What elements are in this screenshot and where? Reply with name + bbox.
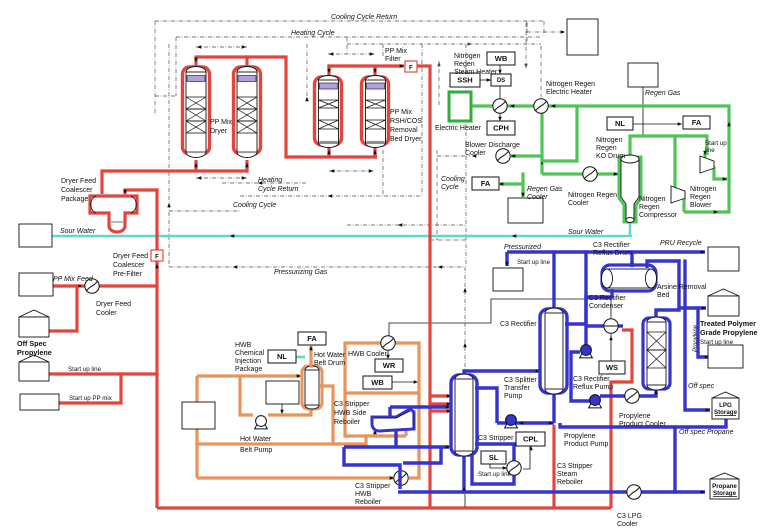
box HWB chemical injection (266, 381, 299, 404)
dashed vertical right x437 (436, 150, 438, 240)
orange drum outlet right (320, 386, 333, 444)
dashed span dryer1 bottoms (196, 177, 247, 179)
tag NL (607, 117, 633, 130)
orange drum to FA stub (309, 346, 312, 366)
dashed vertical x176 (175, 37, 177, 96)
blue kettle bottom stub (394, 431, 397, 447)
dashed inner header 1 (347, 43, 541, 45)
box regen gas cooler (508, 198, 543, 223)
svg-text:PP Mix: PP Mix (385, 48, 408, 55)
svg-text:Pump: Pump (504, 393, 522, 400)
svg-text:Pressurizing Gas: Pressurizing Gas (274, 269, 328, 276)
blue treated propylene line (679, 306, 706, 309)
tag NL2 (268, 350, 296, 363)
red pipe off spec propylene (48, 286, 77, 331)
svg-text:Storage: Storage (714, 409, 738, 416)
thin drain stripper bottoms to red header (464, 494, 466, 507)
svg-text:SSH: SSH (457, 76, 472, 85)
thin line SL to startup valve (490, 463, 505, 468)
blue offspec to cooler drop (673, 427, 676, 492)
orange reboiler to riser (345, 343, 419, 478)
junction dots orange (238, 374, 241, 377)
svg-text:Propylene: Propylene (693, 324, 699, 352)
electric heater green box (449, 92, 471, 121)
thin line DS to steam heater exchanger (499, 86, 501, 99)
svg-text:FA: FA (307, 334, 317, 343)
red pipe start up PP mix (59, 374, 121, 403)
dashed heating cycle return line (222, 182, 307, 184)
propylene product pump (589, 403, 602, 408)
blue drum top stub (630, 252, 633, 267)
tag WS (599, 361, 625, 374)
red arrow into dryer feed cooler (78, 284, 83, 288)
svg-text:Dryer Feed: Dryer Feed (96, 301, 131, 308)
dashed vertical x383 lower (382, 150, 384, 196)
svg-text:Regen Gas: Regen Gas (645, 90, 681, 97)
svg-text:Start up line: Start up line (68, 366, 102, 373)
svg-text:Removal: Removal (390, 127, 418, 134)
svg-text:Nitrogen Regen: Nitrogen Regen (568, 192, 617, 199)
svg-text:PRU Recycle: PRU Recycle (660, 240, 702, 247)
C3 rectifier reflux drum vessel (607, 269, 651, 288)
thin arrow WB to DS (499, 64, 501, 73)
svg-text:Storage: Storage (713, 490, 737, 497)
svg-text:C3 Stripper: C3 Stripper (355, 483, 391, 490)
svg-text:Electric Heater: Electric Heater (546, 89, 593, 96)
svg-text:LPG: LPG (719, 402, 732, 409)
tag SSH (450, 73, 480, 87)
vessel bed dryer 3 (319, 80, 339, 143)
C3 splitter transfer pump (505, 423, 518, 428)
blue stripper overhead to transfer pump (475, 388, 497, 423)
svg-text:C3 Rectifier: C3 Rectifier (593, 242, 630, 249)
box sour water battery limit (19, 224, 52, 247)
junction dots red (75, 284, 78, 287)
svg-text:Off Spec: Off Spec (17, 339, 47, 348)
dashed span dryer1 tops (196, 46, 247, 48)
svg-text:Start up line: Start up line (478, 471, 512, 478)
C3 rectifier reflux pump (580, 353, 593, 358)
box hot water belt pump suction (182, 402, 215, 429)
junction dots green (673, 134, 676, 137)
blue drum bottom to reflux pump (586, 289, 612, 345)
red pipe condenser water return (611, 330, 632, 508)
svg-text:Heating Cycle: Heating Cycle (291, 30, 335, 37)
dashed line y211 (169, 210, 240, 212)
hot water belt drum frame (302, 366, 322, 409)
tag SL (481, 451, 506, 464)
tag FA3 (298, 332, 326, 345)
red bottom long header (157, 506, 611, 509)
svg-text:C3 Stripper: C3 Stripper (557, 463, 593, 470)
svg-text:Nitrogen: Nitrogen (454, 53, 481, 60)
junction arrow stripper bottoms (462, 487, 466, 492)
svg-text:DS: DS (497, 78, 505, 84)
box utility top right (567, 19, 598, 55)
svg-text:Arsine Removal: Arsine Removal (657, 284, 707, 291)
svg-text:Belt Drum: Belt Drum (314, 360, 345, 367)
green arrows (511, 154, 516, 158)
svg-text:PP Mix: PP Mix (210, 119, 233, 126)
dashed cooling cycle return header (155, 20, 544, 22)
hot water belt pump (255, 424, 268, 429)
blue reflux pump discharge (571, 352, 590, 401)
tag DS (491, 74, 511, 86)
svg-text:Bed Dryer: Bed Dryer (390, 136, 422, 143)
KO drum bottom sour water stub (629, 222, 632, 236)
red arrows into dryers (194, 163, 198, 168)
green KO drum inlet line (542, 172, 618, 175)
blower discharge cooler exchanger (496, 149, 510, 163)
blue condenser feed (586, 324, 604, 327)
dashed line y225 (347, 224, 466, 226)
svg-text:Propylene: Propylene (17, 348, 52, 357)
blue arrow into transfer pump (519, 421, 524, 425)
svg-text:Regen: Regen (690, 194, 711, 201)
HWB cooler exchanger (381, 336, 395, 350)
blue lpg cooler bottom line (398, 490, 705, 493)
svg-text:Regen: Regen (596, 145, 617, 152)
orange kettle stubs (373, 431, 376, 436)
propylene product cooler exchanger (625, 389, 639, 403)
svg-text:Start up: Start up (705, 140, 727, 147)
svg-text:Start up line: Start up line (700, 339, 734, 346)
svg-text:line: line (705, 147, 715, 154)
hot water belt drum vessel (305, 370, 319, 405)
red pipe into coalescer inlet (125, 190, 157, 508)
svg-text:Product Pump: Product Pump (564, 441, 608, 448)
steam heater exchanger (493, 99, 507, 113)
svg-text:Blower: Blower (690, 202, 712, 209)
svg-text:Cooler: Cooler (96, 310, 117, 317)
nitrogen regen blower (700, 156, 714, 173)
dashed horizontal y96 (155, 95, 176, 97)
red frame PP mix dryer 1 (183, 67, 210, 154)
blue stub into startup box (505, 252, 508, 266)
red pipe dryer3 bottom stub (327, 146, 330, 157)
tank off spec propylene (19, 310, 49, 317)
dashed vertical x526 (525, 23, 527, 69)
svg-text:Condenser: Condenser (589, 303, 624, 310)
blue rectifier side to header (565, 252, 586, 324)
svg-text:Propane: Propane (712, 483, 737, 490)
blue pressurized header (507, 250, 705, 253)
HWB side reboiler kettle (372, 409, 414, 431)
red pipe dryer4 bottom stub (373, 146, 376, 157)
svg-text:Dryer: Dryer (210, 128, 228, 135)
svg-text:C3 Stripper: C3 Stripper (334, 401, 370, 408)
dashed vertical x422 (421, 44, 423, 196)
nitrogen regen KO drum frame (619, 157, 641, 222)
svg-text:Sour Water: Sour Water (60, 228, 96, 235)
red pipe start up line (48, 372, 157, 375)
svg-text:Filter: Filter (385, 56, 401, 63)
svg-text:WB: WB (371, 378, 384, 387)
dryer feed coalescer package (90, 196, 137, 232)
blue product line to arsine bed (600, 390, 656, 396)
blue off spec line (685, 261, 710, 410)
svg-text:Nitrogen: Nitrogen (639, 196, 666, 203)
svg-text:C3 Rectifier: C3 Rectifier (500, 321, 537, 328)
nitrogen regen KO drum vessel (621, 155, 639, 223)
gray level lines in dryer bottoms (187, 152, 205, 154)
dashed vertical x544 (543, 21, 545, 37)
svg-text:Grade Propylene: Grade Propylene (700, 328, 758, 337)
svg-text:Nitrogen: Nitrogen (596, 137, 623, 144)
orange pump riser (240, 376, 253, 415)
vessel PP mix dryer 1 (186, 72, 206, 152)
svg-text:Dryer Feed: Dryer Feed (113, 253, 148, 260)
svg-text:Pre-Filter: Pre-Filter (113, 271, 142, 278)
electric heater exchanger (534, 99, 548, 113)
svg-text:HWB: HWB (235, 342, 252, 349)
red arrows into stripper side (447, 394, 452, 398)
svg-text:PP Mix Feed: PP Mix Feed (53, 276, 94, 283)
svg-text:HWB Cooler: HWB Cooler (348, 351, 388, 358)
svg-text:C3 LPG: C3 LPG (617, 513, 642, 520)
red pipe dryer2 top stub (245, 57, 248, 68)
svg-text:Reflux Drum: Reflux Drum (593, 250, 632, 257)
arsine removal bed vessel (647, 322, 666, 385)
C3 stripper HWB reboiler exchanger (394, 471, 408, 485)
svg-text:Injection: Injection (235, 358, 261, 365)
orange hwb cooler branch (197, 436, 406, 444)
svg-text:Pressurized: Pressurized (504, 244, 542, 251)
blue startup branch right (698, 308, 708, 357)
svg-text:C3 Stripper: C3 Stripper (478, 435, 514, 442)
thin arrow exchanger to CPH (499, 113, 501, 120)
svg-text:Electric Heater: Electric Heater (435, 125, 482, 132)
red pipe steam riser x554 (552, 425, 555, 508)
svg-text:Start up PP mix: Start up PP mix (69, 395, 113, 402)
tag CPH (487, 121, 515, 135)
green blower discharge (705, 153, 727, 179)
svg-text:Transfer: Transfer (504, 385, 530, 392)
svg-text:Propylene: Propylene (619, 413, 651, 420)
svg-text:Treated Polymer: Treated Polymer (700, 319, 756, 328)
green KO drum overhead (630, 136, 707, 157)
dashed stub into box top right (527, 23, 562, 32)
red frame PP mix dryer 2 (234, 67, 261, 154)
svg-text:Cooler: Cooler (465, 150, 486, 157)
svg-text:C3 Rectifier: C3 Rectifier (589, 295, 626, 302)
svg-text:Hot Water: Hot Water (314, 352, 346, 359)
NL to hot water belt drum cyan stub (296, 356, 305, 359)
svg-text:Cooler: Cooler (527, 194, 548, 201)
svg-text:NL: NL (615, 119, 625, 128)
svg-text:FA: FA (692, 118, 702, 127)
arsine removal bed frame (643, 318, 670, 389)
box regen gas source (628, 63, 658, 87)
tag CPL (516, 432, 545, 446)
C3 stripper frame (451, 375, 477, 455)
svg-text:WR: WR (383, 361, 396, 370)
svg-text:Hot Water: Hot Water (240, 436, 272, 443)
blue rectifier overhead riser (552, 252, 555, 310)
tag FA2 (472, 177, 499, 190)
tag WR (375, 359, 403, 372)
startup control valve (507, 461, 521, 475)
box start up PP mix (20, 394, 59, 410)
svg-text:Regen: Regen (454, 61, 475, 68)
svg-text:Compressor: Compressor (639, 212, 678, 219)
blue stripper overhead line (464, 371, 539, 375)
box startup line right (708, 345, 743, 368)
C3 rectifier condenser exchanger (604, 319, 618, 333)
blue drum jog to arsine bed (647, 261, 679, 318)
red pipe dryer pair2 overhead to filter (329, 66, 404, 76)
PP mix filter box F1 (405, 61, 417, 72)
dashed span dryer2 bottoms (329, 170, 374, 172)
blue off spec propane line (560, 417, 726, 427)
svg-text:Reboiler: Reboiler (334, 419, 361, 426)
svg-text:NL: NL (277, 352, 287, 361)
thin line WB2 to HWB loop (392, 381, 417, 383)
dashed pressurizing gas line (169, 266, 465, 268)
C3 stripper vessel (455, 379, 473, 451)
dashed vertical x383 (382, 44, 384, 57)
C3 rectifier vessel (545, 313, 563, 389)
svg-text:Nitrogen: Nitrogen (690, 186, 717, 193)
tag FA (683, 116, 710, 129)
svg-text:Cooler: Cooler (568, 200, 589, 207)
blue condenser outlet stub (617, 324, 623, 327)
svg-text:RSH/COS: RSH/COS (390, 118, 422, 125)
dashed cooling cycle line y196 (240, 195, 422, 197)
box PP mix feed (19, 273, 53, 296)
orange hot water header (197, 374, 300, 377)
green stub to regen gas cooler box (521, 174, 524, 197)
svg-text:Reboiler: Reboiler (557, 479, 584, 486)
green stub to FA2 (500, 182, 523, 185)
orange bottom return line (197, 476, 393, 479)
green riser x542 (540, 106, 543, 174)
svg-text:C3 Rectifier: C3 Rectifier (573, 376, 610, 383)
thin arrow injection box to pump line (281, 404, 283, 413)
C3 rectifier reflux drum frame (602, 265, 656, 291)
box pressurized startup (493, 268, 523, 291)
blue stripper bottoms drop (462, 453, 465, 492)
green main regen header (471, 106, 729, 212)
sour water arrow left (230, 234, 235, 238)
blue rectifier bottoms (552, 392, 555, 423)
svg-text:PP Mix: PP Mix (390, 109, 413, 116)
nitrogen regen compressor (671, 186, 685, 203)
dashed vertical x439 (438, 61, 440, 106)
svg-text:Heating: Heating (258, 177, 282, 184)
box PRU recycle (708, 247, 739, 271)
green arrows into heater exchangers (510, 104, 515, 108)
svg-text:F: F (155, 254, 159, 261)
red pipe dryer4 top stub (373, 66, 376, 76)
thin line CPL to startup valve (523, 446, 530, 469)
svg-text:Cooling Cycle Return: Cooling Cycle Return (331, 14, 397, 21)
green stub to blower discharge cooler (511, 154, 542, 157)
green jog x577 (542, 106, 577, 161)
thin arrow NL to FA (633, 123, 680, 125)
svg-text:CPL: CPL (523, 435, 538, 444)
tag WB2 (363, 376, 392, 389)
svg-text:Sour Water: Sour Water (568, 229, 604, 236)
blue kettle top stub (388, 407, 391, 417)
dashed vertical x347 (346, 37, 348, 54)
svg-text:Regen: Regen (639, 204, 660, 211)
junction dots blue (552, 250, 555, 253)
svg-text:CPH: CPH (493, 124, 509, 133)
svg-text:Coalescer: Coalescer (113, 262, 145, 269)
dashed vertical x155 (154, 21, 156, 115)
vessel PP mix dryer 2 (237, 72, 257, 152)
svg-text:Regen Gas: Regen Gas (527, 186, 563, 193)
svg-text:Bed: Bed (657, 292, 670, 299)
svg-text:FA: FA (481, 179, 491, 188)
svg-text:Chemical: Chemical (235, 350, 265, 357)
svg-text:Coalescer: Coalescer (61, 187, 93, 194)
red pipe PP mix feed (53, 284, 157, 287)
svg-text:WB: WB (495, 54, 508, 63)
svg-text:Cycle: Cycle (441, 184, 459, 191)
tag WB (487, 52, 515, 65)
dashed vertical x466 (465, 44, 467, 267)
svg-text:Propylene: Propylene (564, 433, 596, 440)
svg-text:Steam: Steam (557, 471, 577, 478)
svg-text:Dryer Feed: Dryer Feed (61, 178, 96, 185)
red pipe dryer pair1 overhead (196, 57, 377, 157)
blue stripper feed y407 (390, 405, 449, 408)
C3 LPG cooler exchanger (627, 485, 641, 499)
orange left downcomer (195, 376, 198, 478)
dryer feed pre-filter box F2 (151, 250, 163, 261)
sour water line (52, 235, 632, 238)
svg-text:Belt Pump: Belt Pump (240, 447, 272, 454)
svg-text:Product Cooler: Product Cooler (619, 421, 666, 428)
dryer feed cooler exchanger (85, 279, 99, 293)
tank treated propylene (708, 289, 739, 296)
svg-text:Cycle Return: Cycle Return (258, 186, 299, 193)
red pipe dryer pair1 bottom header (102, 160, 248, 194)
thin arrow SSH to DS (480, 79, 490, 81)
dashed vertical x541b (540, 46, 542, 97)
svg-text:C3 Splitter: C3 Splitter (504, 377, 537, 384)
svg-text:HWB: HWB (355, 491, 372, 498)
svg-text:Start up line: Start up line (517, 259, 551, 266)
C3 rectifier frame (540, 309, 567, 393)
dashed span dryer2 tops (328, 53, 375, 55)
red pipe filter to main riser (417, 66, 430, 508)
svg-text:Cooling Cycle: Cooling Cycle (233, 202, 276, 209)
dashed vertical x527 (526, 21, 528, 44)
orange side reboiler drop x345 (345, 393, 366, 436)
red frame bed dryer 4 (362, 77, 389, 145)
svg-text:Reboiler: Reboiler (355, 499, 382, 506)
thin arrow HWB cooler to WR (387, 350, 389, 358)
dashed line y240 right (430, 239, 466, 241)
regen gas thin line (642, 87, 644, 136)
blue stripper feed y447 (344, 445, 449, 448)
red frame bed dryer 3 (315, 77, 342, 145)
orange pump suction from drum (268, 409, 311, 415)
blue transfer pump line (497, 421, 554, 424)
dashed vertical x307 (306, 44, 308, 101)
svg-text:Steam Heater: Steam Heater (454, 69, 498, 76)
tank start up line (19, 355, 49, 362)
svg-text:Off spec Propane: Off spec Propane (679, 429, 734, 436)
dashed into blower discharge cooler (437, 155, 470, 157)
dashed pressurizing gas riser (464, 267, 466, 370)
signal line condenser to WS box (610, 334, 612, 361)
svg-text:Package: Package (61, 196, 88, 203)
tank propane storage (710, 473, 739, 479)
